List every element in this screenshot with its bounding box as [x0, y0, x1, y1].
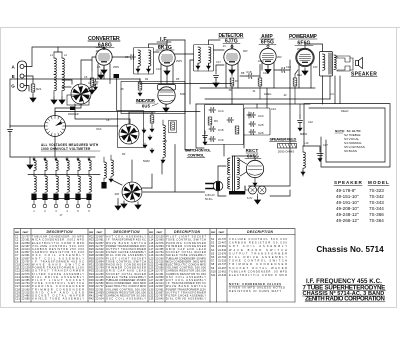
svg-text:50M: 50M	[180, 92, 185, 96]
svg-text:R8: R8	[241, 71, 245, 75]
svg-text:FIELD: FIELD	[341, 109, 348, 113]
svg-text:PART: PART	[23, 231, 29, 234]
seventh trimmer column	[101, 157, 106, 189]
svg-text:.02: .02	[283, 93, 287, 97]
wire dial to switch S2	[55, 104, 118, 126]
svg-text:7S-323: 7S-323	[369, 188, 384, 193]
label AMP 6F5G	[259, 34, 276, 47]
svg-text:22-961: 22-961	[218, 244, 227, 248]
label RECT 6X5G	[245, 148, 261, 159]
electrolytic condenser block	[244, 108, 270, 135]
tuning dial condenser	[45, 116, 66, 137]
svg-text:22-961: 22-961	[218, 269, 227, 273]
svg-text:OSC COIL ASSEMBLY: OSC COIL ASSEMBLY	[106, 297, 146, 301]
svg-text:22-467: 22-467	[218, 241, 227, 245]
speaker bracket	[337, 56, 353, 71]
wire converter pins down	[92, 57, 110, 84]
wire long vertical x290	[249, 70, 291, 196]
capacitor C-tone poweramp	[298, 104, 303, 131]
ground under V7	[163, 104, 169, 112]
svg-text:C18: C18	[246, 70, 252, 74]
wire B+ bus	[205, 98, 330, 100]
svg-text:6U5: 6U5	[142, 104, 151, 109]
svg-text:CONTROL: CONTROL	[188, 154, 205, 158]
svg-text:22-580: 22-580	[22, 297, 31, 301]
pilot lamps	[245, 186, 266, 194]
arrows on trimmer bus	[32, 159, 90, 162]
svg-text:-3V: -3V	[95, 49, 99, 53]
resistor R-grid poweramp	[293, 70, 298, 104]
wire electrolytic top	[257, 88, 267, 108]
svg-text:.25: .25	[120, 87, 124, 91]
note list speakers	[335, 129, 365, 153]
svg-text:V.C.: V.C.	[330, 92, 335, 96]
AC plug	[206, 181, 223, 191]
capacitor mid with arrow	[203, 131, 208, 145]
indicator tube box	[158, 85, 176, 91]
trimmer bank bottom wire	[34, 199, 118, 204]
wire S1 to coils	[62, 80, 72, 87]
svg-text:C20: C20	[286, 65, 291, 69]
svg-text:C22: C22	[308, 120, 313, 124]
tube V4 amp 6F5G	[260, 48, 276, 64]
antenna terminal strip A E G	[11, 61, 26, 91]
svg-text:DESCRIPTION: DESCRIPTION	[247, 230, 274, 234]
svg-text:S8: S8	[211, 262, 215, 266]
svg-text:R9: R9	[214, 119, 218, 123]
resistor R-ind	[138, 79, 142, 97]
tone switch S3	[122, 182, 142, 202]
svg-text:A: A	[12, 65, 16, 70]
antenna coil L2	[62, 52, 64, 97]
svg-text:NOTE: CONDENSER VALUES: NOTE: CONDENSER VALUES	[229, 282, 281, 286]
svg-text:22-215: 22-215	[218, 259, 227, 263]
filter choke L10	[301, 146, 305, 175]
svg-text:C16: C16	[218, 138, 224, 142]
label SWITCH ON VOL CONTROL	[185, 149, 211, 158]
svg-text:22-914: 22-914	[96, 297, 105, 301]
svg-text:.006: .006	[114, 192, 120, 196]
svg-text:C8: C8	[106, 118, 110, 122]
resistor R3 mid	[150, 112, 154, 133]
wire T2 to V3	[175, 40, 224, 54]
label SPEAKER FIELD	[270, 137, 297, 142]
svg-text:C25: C25	[258, 123, 264, 127]
wire S2 riser	[129, 112, 155, 124]
svg-text:L33: L33	[149, 297, 154, 301]
svg-text:90V: 90V	[243, 49, 248, 53]
svg-text:49-151-10": 49-151-10"	[336, 194, 359, 199]
wire dial left to edge	[10, 126, 55, 157]
antenna coil L1	[54, 52, 56, 97]
tube V1 converter 6A8G	[96, 49, 112, 65]
svg-text:.01: .01	[252, 89, 256, 93]
svg-text:250V: 250V	[297, 47, 303, 51]
svg-text:50-60~: 50-60~	[205, 197, 214, 201]
svg-text:S2: S2	[211, 241, 215, 245]
capacitor C-osc at converter	[112, 55, 136, 60]
svg-text:22-576: 22-576	[218, 251, 227, 255]
svg-text:7S-343: 7S-343	[369, 200, 384, 205]
svg-text:DESCRIPTION: DESCRIPTION	[114, 230, 141, 234]
voltage annotations	[68, 44, 348, 201]
svg-text:SHIELD TUBE ASSEMBLY: SHIELD TUBE ASSEMBLY	[32, 297, 84, 301]
label SPEAKER	[351, 72, 377, 78]
ground under pilot lamps	[255, 194, 261, 204]
trimmer bank mid bus	[28, 174, 100, 176]
capacitor C-amp out	[274, 60, 290, 73]
svg-text:49-178-8": 49-178-8"	[336, 188, 356, 193]
wire vertical x196	[196, 104, 204, 148]
terminal pin numbers	[33, 209, 90, 217]
label POWER AMP 6F6G	[289, 34, 317, 47]
wire antenna A to top bus	[24, 47, 104, 67]
svg-text:7S-364: 7S-364	[369, 218, 384, 223]
svg-text:R5: R5	[176, 77, 180, 81]
svg-text:110V: 110V	[258, 59, 264, 63]
IF transformer T2	[194, 45, 214, 72]
svg-text:S6: S6	[211, 255, 215, 259]
wire AVC bus mid	[140, 79, 232, 84]
wire antenna E to resistor	[24, 76, 33, 84]
svg-text:115V.AC: 115V.AC	[205, 193, 215, 197]
svg-text:C2: C2	[88, 81, 92, 85]
condenser C-filter right	[317, 148, 323, 162]
svg-text:RESISTORS IN OHMS WATT: RESISTORS IN OHMS WATT	[229, 289, 281, 293]
wire output transformer bottoms	[323, 76, 341, 104]
blob condenser at converter	[114, 74, 120, 78]
wire AVC bus left	[10, 79, 140, 125]
box around osc switch S2	[118, 111, 144, 148]
capacitor C2 with arrow	[88, 79, 98, 90]
svg-text:45V: 45V	[277, 55, 282, 59]
svg-text:C21: C21	[15, 297, 20, 301]
svg-text:DIAL DRIVE ASSEMBLY: DIAL DRIVE ASSEMBLY	[166, 297, 206, 301]
label INDICATOR 6U5	[136, 98, 158, 109]
svg-text:S11: S11	[211, 273, 216, 277]
ground under V2	[164, 68, 170, 75]
chassis number	[316, 245, 384, 254]
svg-text:MODEL: MODEL	[368, 180, 389, 185]
wire top of coils	[54, 47, 62, 52]
svg-text:49-208-10": 49-208-10"	[336, 206, 359, 211]
coil left of power area	[109, 155, 113, 182]
ground at bank right	[115, 203, 121, 210]
wire grid bus under tubes	[200, 87, 315, 89]
svg-text:C17: C17	[216, 60, 221, 64]
svg-text:L10: L10	[304, 141, 309, 145]
svg-text:TUBULAR CONDENSER .05 MFD: TUBULAR CONDENSER .05 MFD	[229, 269, 287, 273]
wire transformer to rect	[240, 160, 247, 190]
svg-text:S9: S9	[211, 266, 215, 270]
capacitor C-det with ground	[213, 65, 224, 87]
svg-text:PADDER: PADDER	[68, 112, 79, 116]
wire poweramp pins	[299, 44, 323, 88]
svg-text:SPEAKER: SPEAKER	[334, 180, 362, 185]
svg-text:R12: R12	[297, 73, 302, 77]
output transformer T4	[320, 52, 337, 77]
wire vertical x116.7	[116, 78, 118, 111]
svg-text:49-266-12": 49-266-12"	[336, 218, 359, 223]
svg-text:ELECTROLYTIC COND 8 MFD: ELECTROLYTIC COND 8 MFD	[229, 273, 287, 277]
speaker icon	[356, 58, 363, 69]
resistor R-ant	[31, 84, 42, 92]
svg-text:C9: C9	[125, 55, 129, 59]
svg-text:22-764: 22-764	[218, 255, 227, 259]
svg-text:S5: S5	[211, 251, 215, 255]
oscillator switch S2	[119, 124, 139, 144]
tube V6 rectifier 6X5G	[246, 160, 263, 177]
svg-text:PART: PART	[97, 231, 103, 234]
voltage note text	[41, 143, 100, 151]
wire tone box bottom	[224, 135, 244, 156]
svg-text:E: E	[12, 74, 15, 79]
box under band switch S1	[67, 95, 89, 110]
ground arrow near converter	[98, 72, 104, 79]
ground under V3	[229, 67, 235, 74]
svg-text:C24: C24	[258, 114, 264, 118]
svg-text:C26: C26	[258, 131, 264, 135]
tone network box	[205, 105, 244, 145]
svg-text:C6: C6	[97, 65, 101, 69]
svg-text:REF: REF	[211, 232, 216, 234]
wire choke connections	[232, 146, 320, 176]
ground under L2	[59, 97, 65, 104]
ground under V1	[101, 67, 107, 74]
tube V5 power amp 6F6G	[296, 48, 314, 66]
tube V7 indicator 6U5	[158, 87, 175, 104]
svg-text:PART: PART	[219, 231, 225, 234]
svg-text:250V: 250V	[176, 59, 182, 63]
coil L-osc mid	[161, 120, 165, 163]
ground under V4	[265, 67, 271, 74]
svg-text:.1V: .1V	[222, 44, 226, 48]
wire left edge to trimmer bus	[10, 135, 30, 157]
svg-text:C5: C5	[84, 75, 88, 79]
svg-text:S3: S3	[211, 244, 215, 248]
svg-text:REF: REF	[89, 232, 94, 234]
svg-text:C19: C19	[263, 71, 268, 75]
speaker model table	[334, 180, 389, 223]
label DETECTOR 6J7G	[219, 33, 244, 48]
svg-text:PART: PART	[157, 231, 163, 234]
svg-text:REF: REF	[149, 232, 154, 234]
wire G to ground	[24, 86, 29, 92]
svg-text:S6 BASS: S6 BASS	[344, 149, 357, 153]
svg-text:S4: S4	[211, 248, 215, 252]
label CONVERTER 6A8G	[88, 36, 120, 50]
wire S3 risers	[112, 160, 152, 188]
wire long vertical x190	[190, 60, 194, 104]
svg-text:SWITCH ON VOL: SWITCH ON VOL	[185, 149, 211, 153]
svg-text:G: G	[11, 84, 15, 89]
svg-text:INDICATOR: INDICATOR	[136, 98, 155, 103]
wire IF tube pins down	[161, 40, 185, 84]
svg-text:R4: R4	[145, 77, 149, 81]
svg-text:7S-366: 7S-366	[369, 212, 384, 217]
trimmer bank top bus	[30, 157, 95, 162]
svg-text:C24: C24	[271, 107, 276, 111]
svg-text:CARBON RESISTOR 50,000: CARBON RESISTOR 50,000	[229, 241, 288, 245]
wire T1 to V2	[149, 44, 168, 52]
svg-text:.05: .05	[228, 88, 232, 92]
svg-text:16V: 16V	[313, 65, 318, 69]
coupling cap C-couple	[240, 65, 260, 79]
svg-text:DESCRIPTION: DESCRIPTION	[47, 230, 74, 234]
wire speaker field loop outer	[304, 104, 390, 167]
parts list table	[14, 229, 295, 302]
wire bus y119	[75, 104, 130, 124]
svg-text:R21: R21	[36, 87, 42, 91]
resistor R-det plate	[230, 78, 234, 104]
svg-text:REF: REF	[15, 232, 20, 234]
ground under L1	[51, 97, 57, 104]
svg-text:1000 OHM/VOLT VOLTMETER: 1000 OHM/VOLT VOLTMETER	[41, 147, 91, 151]
svg-text:22-737: 22-737	[218, 237, 227, 241]
svg-text:8MFD: 8MFD	[300, 132, 307, 136]
svg-text:2000 OHMS: 2000 OHMS	[278, 150, 295, 154]
wire bus y111	[55, 112, 200, 116]
svg-text:OSC: OSC	[96, 127, 102, 131]
svg-text:6.3V: 6.3V	[247, 196, 253, 200]
trimmer coil bank	[31, 157, 91, 208]
oscillator small components near converter	[89, 70, 95, 94]
IF transformer T1	[134, 48, 154, 75]
svg-text:C10: C10	[156, 67, 161, 71]
resistor in small box	[169, 121, 177, 133]
grounds under S3	[121, 201, 141, 209]
band switch S1	[71, 84, 91, 104]
wire plug to transformer	[218, 166, 226, 196]
svg-text:7S-342: 7S-342	[369, 194, 384, 199]
svg-text:22-737: 22-737	[218, 262, 227, 266]
svg-text:22-642: 22-642	[218, 248, 227, 252]
svg-text:C15: C15	[218, 128, 224, 132]
ground under V6	[253, 178, 257, 186]
svg-text:DESCRIPTION: DESCRIPTION	[174, 230, 201, 234]
svg-text:R42: R42	[89, 297, 94, 301]
svg-text:S10: S10	[211, 269, 216, 273]
svg-text:S1: S1	[211, 237, 215, 241]
svg-text:49-248-12": 49-248-12"	[336, 212, 359, 217]
tube V3 detector 6J7G	[224, 49, 240, 65]
switch S2 contact arrows	[142, 128, 154, 153]
wire detector pins	[226, 44, 238, 88]
ground left of bank	[27, 162, 33, 169]
wire amp pins	[262, 62, 274, 88]
ground under R-ant	[30, 92, 36, 102]
speaker field resistor	[278, 144, 297, 154]
svg-text:R3: R3	[122, 152, 126, 156]
title block	[303, 278, 386, 303]
svg-text:SPEAKER FIELD: SPEAKER FIELD	[270, 137, 297, 142]
svg-text:RECT: RECT	[246, 148, 259, 153]
svg-text:100V: 100V	[158, 44, 164, 48]
wire long vertical x185	[185, 40, 190, 150]
label I.F. 6K7G	[156, 37, 174, 51]
indicator assembly box	[121, 82, 185, 114]
svg-text:S7: S7	[211, 259, 215, 263]
ground under V5	[302, 68, 308, 75]
capacitor C-left edge	[8, 125, 13, 135]
scattered value labels	[50, 53, 328, 156]
svg-text:C14: C14	[218, 109, 224, 113]
svg-text:VOLUME CONTROL 500,000: VOLUME CONTROL 500,000	[229, 237, 288, 241]
wire bus y104	[196, 103, 310, 105]
svg-text:250V: 250V	[113, 65, 119, 69]
svg-text:500M: 500M	[143, 159, 150, 163]
svg-text:22-467: 22-467	[218, 266, 227, 270]
svg-text:Chassis No. 5714: Chassis No. 5714	[316, 245, 384, 254]
resistor R-grid amp	[258, 76, 262, 99]
svg-text:7S-344: 7S-344	[369, 206, 384, 211]
wire S1 up to converter grid	[81, 60, 95, 90]
wire speaker field loop inner	[309, 108, 385, 162]
svg-text:49-191-10": 49-191-10"	[336, 200, 359, 205]
wire S3 area to tone box	[143, 145, 205, 193]
svg-text:1MEG: 1MEG	[264, 92, 271, 96]
power transformer T3	[228, 156, 245, 195]
svg-text:22-642: 22-642	[218, 273, 227, 277]
svg-text:22-642: 22-642	[156, 297, 165, 301]
tube V2 IF 6K7G	[159, 50, 175, 66]
